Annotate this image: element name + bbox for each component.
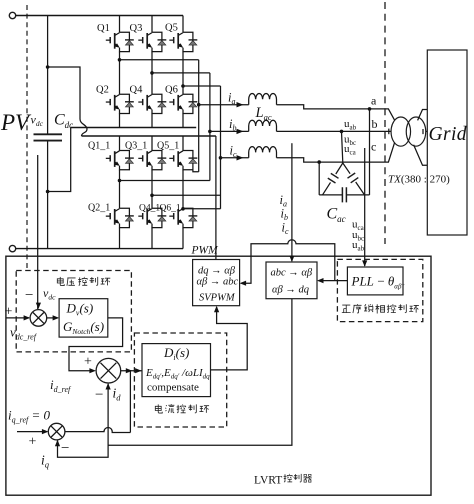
wire: DC- feed to bridge 1 bottom rail	[48, 128, 71, 192]
node: phase a junction	[197, 103, 201, 107]
wire: phase b riser	[209, 73, 211, 181]
svg-text:LVRT: LVRT	[254, 475, 282, 487]
wire: theta branch to SVPWM with hop over iabc bus	[241, 240, 335, 284]
svg-text:TX(380 : 270): TX(380 : 270)	[388, 174, 450, 186]
wire: bridge2 emitters to bottom rail	[120, 228, 184, 249]
block Dv(s) GNotch(s)	[59, 299, 108, 337]
svg-text:Q3: Q3	[130, 23, 143, 34]
current arrow ia	[237, 102, 244, 107]
wire: DC+ feed to bridge 2 with crossover hop	[48, 67, 87, 136]
wire: summer1 to Dv box	[47, 317, 58, 319]
svg-text:Q2_1: Q2_1	[88, 203, 110, 214]
arrow iabc bus into transform box	[289, 256, 294, 263]
block PLL	[347, 267, 403, 295]
summer S3	[48, 423, 65, 440]
svg-text:−: −	[95, 387, 103, 403]
PLL loop dashed box	[337, 259, 422, 321]
block abc-alphabeta transform	[266, 262, 317, 299]
transistor Q3	[138, 32, 166, 51]
wire: transformer right lead bottom	[414, 145, 428, 166]
wire: PWM feed vertical	[215, 136, 217, 260]
LVRT controller box	[6, 256, 431, 495]
wire: bridge2 leg1 output	[120, 180, 210, 182]
svg-text:Dv(s): Dv(s)	[66, 301, 94, 318]
transistor Q6	[169, 94, 197, 113]
transistor Q1	[106, 32, 134, 51]
label voltage control loop	[57, 277, 64, 286]
wire: iq error feed up	[129, 371, 131, 433]
capacitor Cac delta right side	[343, 163, 365, 195]
wire: Di output loop to SVPWM	[211, 307, 248, 370]
wire: bridge1 leg2	[151, 16, 153, 95]
node: DC+ tap	[46, 65, 50, 69]
svg-text:b: b	[372, 117, 378, 131]
transistor Q5_1	[169, 151, 197, 170]
svg-text:Q6: Q6	[165, 85, 178, 96]
svg-text:+: +	[29, 435, 37, 450]
arrow iq into summer3 bottom	[55, 440, 60, 447]
svg-text:Q1_1: Q1_1	[88, 141, 110, 152]
wire: vdc measurement line down to controller	[37, 155, 39, 309]
node: bridge1 leg3 midpoint	[181, 84, 185, 88]
node: cap bank phase b tap	[340, 130, 344, 134]
wire: bridge1 leg1 output	[120, 59, 199, 61]
label current control loop	[155, 404, 162, 413]
transistor Q5	[169, 32, 197, 51]
wire: transformer right lead mid	[423, 129, 427, 134]
svg-text:SVPWM: SVPWM	[199, 293, 236, 304]
transistor Q6_1	[169, 208, 197, 227]
svg-text:Q6_1: Q6_1	[160, 204, 181, 214]
node: bridge2 leg1 midpoint	[118, 179, 122, 183]
svg-text:Q2: Q2	[96, 85, 109, 96]
wire: Dv output to summer2	[69, 318, 123, 371]
svg-text:PV: PV	[0, 110, 32, 135]
current arrow ib	[237, 129, 244, 134]
wire: cap bank right leg	[369, 109, 371, 195]
wire: phase b to inductor	[210, 130, 249, 132]
node: bridge1 leg1 midpoint	[118, 58, 122, 62]
wire: bridge1 leg2 output	[152, 72, 210, 74]
wire: bridge2 leg3 link to phase a riser	[193, 170, 199, 172]
svg-text:+: +	[84, 355, 92, 370]
wire: id iq measurement vertical with hop crossing	[58, 384, 109, 458]
wire: bridge2 mid segments	[120, 170, 184, 209]
current control loop dashed box	[134, 333, 226, 427]
node: bridge2 leg3 lower tap	[181, 207, 185, 211]
wire: phase b after inductor	[277, 130, 392, 132]
node: DC- tap	[46, 190, 50, 194]
wire: cap bank left leg	[318, 162, 320, 195]
wire: u measurement bus to PLL	[364, 148, 366, 266]
svg-text:αβ → abc: αβ → abc	[197, 277, 239, 288]
wire: phase a riser	[198, 60, 200, 172]
svg-text:Q4: Q4	[130, 85, 144, 96]
label positive sequence PLL loop	[342, 305, 351, 313]
PV panel dashed boundary	[26, 5, 28, 270]
transistor Q2	[106, 94, 134, 113]
transistor Q4_1	[138, 208, 166, 227]
wire: phase a to inductor	[199, 104, 249, 106]
wire: bridge1 leg3 output	[183, 85, 221, 87]
capacitor Cdc	[34, 134, 63, 140]
svg-text:Q4_1: Q4_1	[139, 204, 160, 214]
node: cap bank phase c tap	[317, 160, 321, 164]
terminal DC-	[9, 245, 15, 251]
arrow id into summer2 bottom	[106, 383, 111, 390]
wire: vdc_ref input	[6, 317, 29, 319]
block SVPWM	[193, 260, 240, 306]
svg-text:Grid: Grid	[429, 124, 467, 145]
svg-text:c: c	[371, 140, 376, 154]
svg-text:−: −	[61, 441, 69, 457]
summer S2	[96, 358, 121, 383]
wire: iabc measurement bus	[291, 143, 293, 261]
transformer TX primary winding	[391, 117, 411, 146]
svg-text:PWM: PWM	[191, 245, 220, 257]
svg-text:Q5: Q5	[165, 23, 178, 34]
wire: bridge1 leg1 collector and mid segment	[119, 16, 121, 95]
inductor Lac phase a	[249, 93, 277, 104]
wire: bridge2 leg3 lower output	[183, 208, 221, 210]
wire: phase c to inductor	[221, 157, 249, 159]
wire: iq_ref input	[17, 431, 47, 433]
svg-text:a: a	[371, 94, 377, 108]
wire: bridge 2 top rail	[82, 135, 216, 137]
current arrow ic	[237, 155, 244, 160]
capacitor Cac delta bottom side with cap	[319, 194, 369, 196]
wire: DC- bottom rail	[16, 248, 183, 250]
arrow vdc into summer1	[36, 303, 41, 309]
terminal DC+	[9, 12, 15, 18]
node: phase b junction	[208, 130, 212, 134]
transistor Q1_1	[106, 151, 134, 170]
wire: PLL theta output to transform box	[319, 280, 348, 282]
wire: phase c riser	[220, 86, 222, 209]
wire: dq currents bus from transform box	[108, 299, 292, 446]
block Di(s) compensate	[142, 344, 211, 397]
wire: bridge2 collectors from top rail	[120, 136, 184, 151]
wire: bridge2 leg2 output	[152, 194, 221, 196]
wire: summer3 output with hop over measurement line	[65, 428, 130, 433]
wire: summer2 output to Di with double arrows	[121, 370, 142, 372]
wire: bridge 1 bottom rail	[71, 127, 197, 129]
Grid box	[427, 50, 467, 235]
wire: bridge1 leg3	[182, 16, 184, 95]
PCC dashed boundary	[384, 2, 386, 244]
node: bridge1 leg2 midpoint	[150, 71, 154, 75]
node: cap bank phase a tap	[368, 107, 372, 111]
wire: transformer left lead a	[386, 109, 395, 120]
wire: bridge1 emitters to DC- rail	[120, 114, 184, 128]
svg-text:compensate: compensate	[147, 382, 199, 394]
svg-text:Q3_1: Q3_1	[125, 141, 147, 152]
svg-text:Q1: Q1	[97, 23, 110, 34]
wire: phase a after inductor with step	[277, 105, 387, 109]
node: phase c junction	[219, 156, 223, 160]
node: bridge2 leg2 midpoint	[150, 194, 154, 198]
wire: DC link vertical	[47, 16, 49, 249]
svg-text:Q5_1: Q5_1	[157, 141, 179, 152]
wire: transformer left lead c	[386, 143, 395, 163]
inductor Lac phase c	[249, 147, 277, 158]
inductor Lac phase b	[249, 120, 277, 131]
svg-text:dq → αβ: dq → αβ	[198, 266, 236, 277]
summer S1	[30, 310, 47, 327]
capacitor Cac delta left side	[323, 163, 343, 195]
svg-text:Di(s): Di(s)	[163, 345, 189, 362]
svg-text:+: +	[5, 305, 13, 320]
transformer TX secondary winding	[406, 117, 426, 146]
transistor Q4	[138, 94, 166, 113]
svg-text:abc → αβ: abc → αβ	[271, 268, 313, 279]
wire: DC+ top rail	[16, 15, 183, 17]
wire: phase c after inductor with step	[277, 158, 387, 162]
svg-text:αβ → dq: αβ → dq	[272, 285, 309, 296]
wire: transformer right lead top	[418, 110, 428, 121]
svg-text:−: −	[25, 288, 33, 304]
transistor Q3_1	[138, 151, 166, 170]
arrow into PLL top	[362, 260, 367, 266]
wire: transformer left lead b tick	[388, 129, 390, 135]
transistor Q2_1	[106, 208, 134, 227]
voltage control loop dashed box	[16, 271, 131, 352]
wire: cap bank middle leg	[342, 131, 343, 163]
